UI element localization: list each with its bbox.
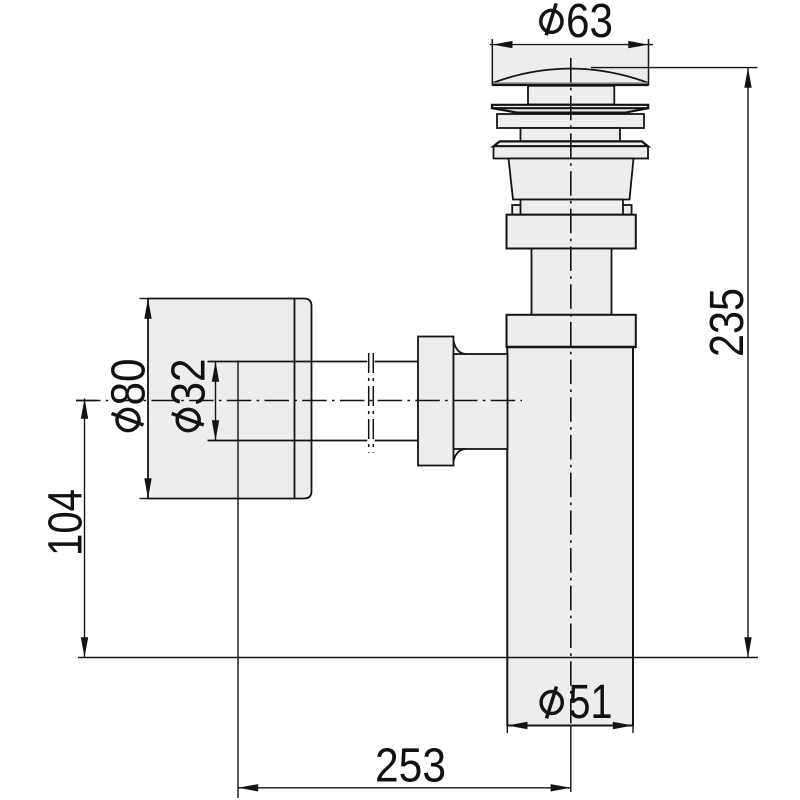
dim 51 right arrow <box>613 722 633 729</box>
label 104 <box>40 489 93 556</box>
flange bevel <box>494 141 649 146</box>
dim 253 right arrow <box>551 784 571 791</box>
break line left <box>368 353 370 453</box>
dim 32 bottom arrow <box>212 420 219 440</box>
label dia63 symbol <box>541 3 562 35</box>
label dia51 symbol <box>541 687 562 719</box>
bottom reference line <box>78 657 758 659</box>
compression nut <box>418 337 454 466</box>
svg-text:63: 63 <box>566 0 613 48</box>
horizontal pipe top edge <box>208 361 419 363</box>
horizontal centerline <box>76 400 522 402</box>
neck under cap <box>528 86 614 105</box>
cap body (gray block under dim line) <box>492 47 648 86</box>
step ring narrow <box>521 200 624 215</box>
top nut of trap <box>507 215 636 249</box>
cap bottom edge <box>492 84 648 87</box>
svg-text:51: 51 <box>569 676 613 729</box>
dim 104 top extension <box>76 400 96 402</box>
dim 104 line <box>84 399 86 658</box>
vertical centerline <box>570 58 572 725</box>
svg-text:104: 104 <box>40 489 93 556</box>
dim 63 line <box>490 44 653 46</box>
socket bottom fillet <box>454 449 467 461</box>
wall flange face line <box>294 299 296 499</box>
svg-text:253: 253 <box>375 740 446 793</box>
trap body <box>507 347 633 726</box>
tee flange <box>507 315 636 347</box>
horizontal pipe bottom edge <box>208 440 419 442</box>
dim 80 top arrow <box>144 299 151 319</box>
label 235 <box>701 288 754 357</box>
dim 32 top arrow <box>212 362 219 382</box>
cap right edge + extension line <box>648 39 650 86</box>
spacer ring <box>521 128 621 141</box>
label dia32 <box>163 359 216 431</box>
svg-text:32: 32 <box>163 359 216 406</box>
locknut <box>497 114 644 128</box>
wall flange <box>148 299 312 499</box>
svg-text:80: 80 <box>103 359 156 406</box>
break line right <box>372 353 374 453</box>
vertical centerline lower solid <box>570 725 572 792</box>
vertical inlet pipe <box>532 249 612 315</box>
dim 80 line on flange edge <box>140 298 149 300</box>
dim 235 top extension <box>591 67 758 69</box>
body top heavy line <box>507 346 636 349</box>
dim 32 line <box>215 362 217 441</box>
step ring wide <box>512 205 631 215</box>
dim 104 top arrow <box>81 399 88 419</box>
seal washer <box>492 105 648 113</box>
dim 235 bottom arrow <box>744 637 751 657</box>
cap left edge + extension line <box>491 39 493 86</box>
dim 51 left extension <box>506 713 508 733</box>
cap rim line <box>493 82 648 84</box>
dim 51 right extension <box>632 713 634 733</box>
dim 235 line <box>747 68 749 658</box>
dim 51 line <box>507 725 633 727</box>
dim 253 left extension <box>237 361 239 799</box>
label dia80 <box>103 359 156 431</box>
tapered collar <box>509 159 634 200</box>
cap dome arc <box>493 69 648 83</box>
dim 63 left arrow <box>492 41 512 48</box>
dim 104 bottom arrow <box>81 637 88 657</box>
dim 63 right arrow <box>628 41 648 48</box>
dim 235 top arrow <box>744 68 751 88</box>
socket top fillet <box>454 341 467 354</box>
dim 253 line <box>238 787 571 789</box>
dim 253 left arrow <box>238 784 258 791</box>
svg-text:235: 235 <box>701 288 754 357</box>
dim 51 left arrow <box>507 722 527 729</box>
dim 80 bottom arrow <box>144 478 151 498</box>
upper flange <box>494 146 649 158</box>
inlet socket <box>454 354 508 449</box>
